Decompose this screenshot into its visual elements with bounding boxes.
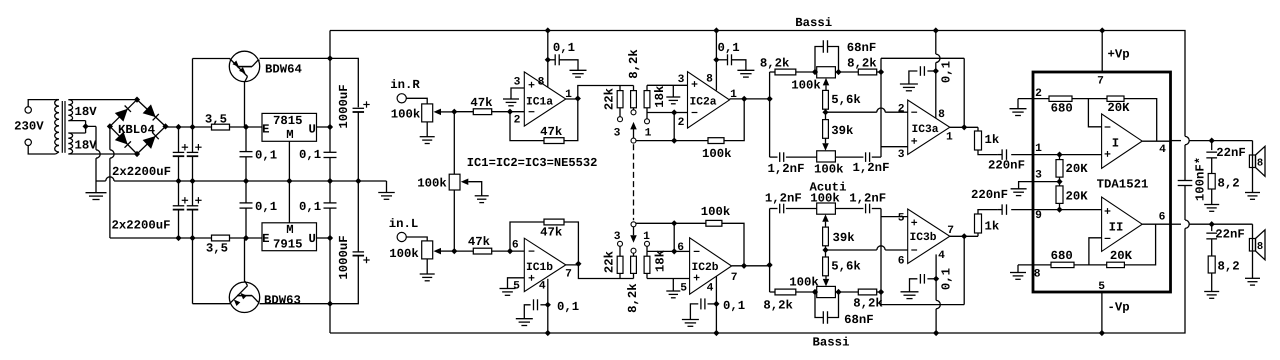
resistor 8,2k LP2 — [839, 71, 859, 73]
TDA pin2 wire — [1018, 98, 1049, 100]
wire IC2a feedback — [674, 140, 708, 142]
wire IC2a out — [730, 98, 770, 100]
resistor 8,2k LP1 — [770, 71, 775, 73]
svg-text:8,2: 8,2 — [1218, 259, 1240, 273]
ground in.R pot — [426, 122, 428, 137]
op-amp IC3b — [908, 209, 950, 264]
potentiometer 100k HP — [817, 286, 836, 297]
svg-text:5: 5 — [513, 281, 520, 293]
regulator 7915 box — [262, 223, 317, 251]
node 20K2 tap — [1056, 207, 1062, 213]
wire IC3a pin8 — [935, 31, 937, 55]
svg-text:1,2nF: 1,2nF — [765, 192, 802, 206]
svg-text:0,1: 0,1 — [553, 41, 575, 55]
resistor 8,2k HP2 — [839, 291, 859, 293]
svg-text:7915: 7915 — [273, 238, 303, 252]
wire 18k to ground and IC2a pin3 — [647, 85, 688, 112]
wire IC2b pin4 — [715, 276, 717, 333]
hop supply over tweeter out — [1185, 220, 1189, 228]
capacitor 0,1 IC1b supply — [540, 304, 547, 306]
svg-text:20K: 20K — [1066, 190, 1089, 204]
potentiometer 100k LP2 — [817, 151, 836, 162]
svg-text:4: 4 — [539, 281, 546, 293]
mains input terminal bottom — [25, 139, 31, 145]
wire secondary top — [68, 99, 137, 101]
resistor 8,2k HP1 — [770, 291, 775, 293]
svg-text:8: 8 — [938, 109, 945, 121]
wire IC1b out — [566, 264, 634, 279]
svg-text:0,1: 0,1 — [299, 200, 321, 214]
capacitor 220nF top — [1001, 149, 1003, 160]
op-amp IC2a — [688, 72, 730, 128]
ground TDA pin2 — [1017, 99, 1019, 109]
capacitor 0,1 IC3b supply — [927, 278, 936, 280]
TDA pin1 wire — [1033, 154, 1102, 156]
svg-text:7: 7 — [1097, 76, 1104, 88]
svg-text:2x2200uF: 2x2200uF — [111, 219, 170, 233]
svg-text:8: 8 — [1257, 241, 1263, 253]
capacitor 0,1 IC3a supply — [927, 70, 935, 72]
wire 680-20K junction — [1072, 98, 1107, 100]
svg-text:6: 6 — [677, 242, 684, 254]
svg-text:2: 2 — [514, 115, 521, 127]
node rail IC1b — [545, 330, 551, 336]
wiper 100k HP2 — [823, 279, 830, 287]
svg-text:7: 7 — [731, 272, 738, 284]
svg-text:E: E — [262, 123, 269, 137]
svg-text:8: 8 — [538, 76, 545, 88]
node HP mid — [825, 246, 827, 257]
svg-text:22k: 22k — [603, 87, 617, 110]
resistor 3,5 lower — [212, 235, 230, 241]
wire BDW63 right lead — [260, 303, 330, 305]
svg-text:22nF: 22nF — [1215, 227, 1245, 241]
speaker tweeter — [1252, 224, 1254, 278]
svg-text:100k: 100k — [417, 177, 447, 191]
svg-text:8,2k: 8,2k — [853, 296, 883, 310]
hop supply over woofer out — [1185, 136, 1189, 144]
svg-text:47k: 47k — [470, 96, 493, 110]
svg-text:22k: 22k — [603, 250, 617, 273]
svg-text:1,2nF: 1,2nF — [853, 161, 890, 175]
input terminal in.L — [397, 232, 406, 241]
resistor 20K vert 2 — [1056, 186, 1063, 204]
svg-text:1000uF: 1000uF — [337, 235, 351, 279]
node BDW64-1000uF tap — [327, 55, 333, 61]
svg-text:100k: 100k — [702, 147, 732, 161]
node center tap — [83, 123, 89, 129]
wire +raw rail — [166, 126, 212, 128]
bridge rectifier KBL04 diode bottom-left — [110, 126, 137, 154]
ground main PSU — [95, 181, 97, 193]
svg-text:IC1=IC2=IC3=NE5532: IC1=IC2=IC3=NE5532 — [467, 156, 598, 170]
op-amp II — [1102, 197, 1143, 251]
svg-text:7: 7 — [947, 225, 954, 237]
capacitor 1000uF upper — [330, 58, 358, 107]
TDA pin9 wire — [1033, 209, 1102, 211]
resistor 1k top — [977, 127, 979, 131]
svg-text:8,2k: 8,2k — [627, 49, 641, 79]
svg-text:0,1: 0,1 — [940, 61, 954, 83]
svg-text:6: 6 — [1159, 212, 1166, 224]
TDA pin3 wire — [1033, 181, 1060, 183]
svg-text:100k: 100k — [814, 163, 844, 177]
svg-text:100nF*: 100nF* — [1193, 157, 1207, 201]
node wiper L — [451, 248, 457, 254]
capacitor 0,1 7815 out — [329, 127, 331, 152]
node mid rail x330 — [327, 178, 333, 184]
svg-text:4: 4 — [938, 250, 945, 262]
node IC1b pin6 — [507, 248, 513, 254]
capacitor 220nF bottom — [1001, 204, 1003, 215]
wire op1 minus riser — [1088, 99, 1101, 127]
svg-text:2x2200uF: 2x2200uF — [112, 165, 171, 179]
node -rail E7915 — [243, 235, 249, 241]
wire 7815 M — [288, 141, 290, 181]
svg-text:220nF: 220nF — [988, 158, 1025, 172]
wire IC1a out — [566, 86, 634, 100]
node IC2b fb — [671, 220, 677, 226]
node bridge bottom — [134, 151, 140, 157]
node IC1b 0,1 tap — [545, 302, 551, 308]
svg-text:BDW64: BDW64 — [265, 63, 303, 77]
regulator 7815 box — [262, 113, 317, 141]
node +rail cap2 — [189, 124, 195, 130]
capacitor 22nF woofer — [1211, 141, 1213, 151]
svg-text:47k: 47k — [468, 235, 491, 249]
node filter R in — [767, 96, 773, 102]
svg-text:IC2a: IC2a — [689, 96, 716, 108]
node wiper R — [451, 109, 457, 115]
node -rail cap2 — [189, 235, 195, 241]
svg-text:5: 5 — [898, 213, 905, 225]
op-amp II signs — [1105, 210, 1111, 212]
capacitor 100nF supply — [1184, 145, 1186, 180]
svg-text:1: 1 — [643, 231, 650, 243]
node IC2a pin2 stub — [671, 109, 677, 115]
node IC1a pin2 — [507, 109, 513, 115]
wiper balance — [461, 178, 469, 185]
bridge rectifier KBL04 diode bottom-right — [137, 126, 166, 154]
op-amp IC1b — [524, 238, 566, 291]
svg-text:39k: 39k — [831, 124, 854, 138]
svg-text:18V: 18V — [75, 105, 98, 119]
ground tweeter zobel — [1211, 273, 1213, 292]
node tweeter zobel — [1209, 221, 1215, 227]
wire in.R to pot — [406, 98, 427, 104]
resistor 5,6k — [823, 90, 829, 109]
capacitor 2200uF B1 — [178, 181, 180, 206]
wire secondary bottom — [68, 153, 137, 155]
wire mains bottom — [28, 146, 55, 155]
terminal wiper top — [633, 108, 635, 110]
node rail IC2b — [713, 330, 719, 336]
op-amp I — [1102, 114, 1143, 168]
ground mid-rail right — [378, 192, 395, 194]
wire IC3b pin4 — [935, 254, 937, 300]
svg-text:0,1: 0,1 — [718, 41, 740, 55]
wire output tweeter — [1171, 223, 1182, 225]
svg-text:0,1: 0,1 — [255, 149, 277, 163]
node IC1a out — [575, 95, 581, 101]
svg-text:230V: 230V — [14, 119, 44, 133]
potentiometer 100k in.L — [422, 241, 433, 259]
node LP A — [812, 69, 818, 75]
svg-text:100k: 100k — [389, 247, 419, 261]
svg-text:0,1: 0,1 — [940, 268, 954, 290]
node HP C — [878, 289, 884, 295]
potentiometer 100k in.R — [422, 104, 433, 122]
svg-text:in.R: in.R — [390, 78, 420, 92]
wire IC1a pin8 — [547, 31, 549, 88]
svg-text:IC3b: IC3b — [909, 231, 936, 244]
transformer core — [61, 101, 63, 153]
svg-text:39k: 39k — [833, 231, 856, 245]
wire +15V top rail (Bassi) — [330, 31, 1185, 137]
resistor 8,2 tweeter — [1208, 256, 1215, 273]
transformer primary winding — [55, 100, 59, 107]
node bridge top — [134, 97, 140, 103]
wire BDW64 right lead — [260, 57, 330, 59]
svg-text:0,1: 0,1 — [255, 200, 277, 214]
svg-text:0,1: 0,1 — [557, 300, 579, 314]
resistor 3,5 upper — [212, 124, 230, 130]
wire op1 feedback — [1124, 99, 1157, 142]
svg-text:47k: 47k — [540, 125, 563, 139]
wiper 100k HP1 — [825, 222, 827, 227]
wire 18k to ground and IC2b pin5 — [647, 251, 690, 291]
wire filter left riser top — [769, 72, 771, 157]
resistor 47k in L — [454, 250, 473, 252]
svg-text:22nF: 22nF — [1216, 146, 1246, 160]
op-amp IC3a — [908, 100, 950, 155]
svg-text:IC2b: IC2b — [691, 261, 718, 274]
svg-text:7815: 7815 — [273, 114, 303, 128]
wire HP mid to IC3b pin6 — [826, 249, 877, 251]
svg-text:100k: 100k — [810, 192, 840, 206]
bridge rectifier KBL04 diode top-left — [110, 100, 137, 127]
svg-text:KBL04: KBL04 — [118, 123, 156, 137]
svg-text:8,2: 8,2 — [1218, 176, 1240, 190]
node -rail cap1 — [175, 235, 181, 241]
ground woofer — [1245, 192, 1260, 194]
transistor BDW64 — [229, 51, 259, 81]
svg-text:20K: 20K — [1107, 101, 1130, 115]
resistor 18k bottom — [646, 273, 648, 278]
ground TDA pin3 — [1019, 182, 1033, 189]
wire IC2b out — [732, 265, 770, 267]
capacitor 1,2nF LP right — [835, 156, 863, 158]
node HP A — [812, 289, 818, 295]
capacitor 22nF tweeter — [1211, 224, 1213, 231]
terminal 1 top — [646, 113, 648, 119]
svg-text:8,2k: 8,2k — [763, 298, 793, 312]
resistor 5,6k bottom — [823, 257, 829, 276]
node IC1b out — [575, 261, 581, 267]
capacitor 0,1 IC2a supply — [713, 57, 719, 63]
svg-text:68nF: 68nF — [844, 313, 874, 327]
wire 7915 M — [288, 181, 290, 223]
svg-text:3: 3 — [898, 149, 905, 161]
node rail IC2a — [713, 27, 719, 33]
svg-text:47k: 47k — [540, 225, 563, 239]
wiper in.R — [434, 109, 442, 116]
resistor 1k bottom — [977, 233, 979, 236]
node 7815 M 0V — [286, 178, 292, 184]
svg-text:680: 680 — [1051, 249, 1073, 263]
svg-text:Bassi: Bassi — [795, 16, 832, 30]
svg-text:U: U — [309, 123, 316, 137]
wire IC2a pin8 — [715, 31, 717, 91]
wire IC3a feedback — [881, 58, 964, 127]
wiper 100k LP2 — [825, 138, 827, 143]
svg-text:M: M — [286, 128, 293, 142]
wire IC1a feedback — [510, 112, 544, 141]
TDA pin5 stub — [1101, 292, 1103, 333]
svg-text:1: 1 — [645, 128, 652, 140]
resistor 20K bottom — [1107, 262, 1125, 267]
node HP B — [835, 289, 841, 295]
capacitor 0,1 7915 out — [329, 181, 331, 203]
node IC3b 0,1 tap — [933, 276, 939, 282]
wire bridge minus drop — [109, 126, 111, 149]
svg-text:2: 2 — [1035, 88, 1042, 100]
capacitor 2200uF B2 — [192, 181, 194, 206]
TDA pin4 out — [1142, 140, 1170, 142]
svg-text:1: 1 — [946, 132, 953, 144]
input terminal in.R — [397, 94, 406, 103]
op-amp I signs — [1105, 126, 1111, 128]
svg-text:2: 2 — [898, 103, 905, 115]
svg-text:0,1: 0,1 — [299, 148, 321, 162]
svg-text:M: M — [286, 223, 293, 237]
svg-text:IC1a: IC1a — [526, 96, 553, 108]
svg-text:6: 6 — [898, 256, 905, 268]
wire IC1a pin3 ground — [511, 88, 524, 99]
svg-text:100k: 100k — [789, 275, 819, 289]
resistor 39k bottom — [823, 227, 829, 246]
node LP B — [835, 69, 841, 75]
svg-text:3: 3 — [678, 74, 685, 86]
svg-text:TDA1521: TDA1521 — [1097, 178, 1149, 192]
wire BDW63 top lead — [244, 238, 246, 282]
wire -15V riser — [329, 238, 331, 333]
wire IC2b feedback — [674, 222, 706, 224]
terminal 1 bottom — [646, 246, 648, 251]
capacitor 2200uF A1 — [178, 127, 180, 152]
svg-text:3: 3 — [514, 76, 521, 88]
svg-text:8: 8 — [1034, 269, 1041, 281]
capacitor 1,2nF HP right — [835, 208, 863, 210]
ground woofer zobel — [1211, 189, 1213, 205]
resistor 22k top — [619, 86, 621, 91]
wire IC3b out — [950, 235, 978, 237]
svg-text:3: 3 — [614, 231, 621, 243]
svg-text:8,2k: 8,2k — [626, 283, 640, 313]
IC TDA1521 box — [1033, 72, 1171, 292]
node rail IC3a — [933, 27, 939, 33]
svg-text:+Vp: +Vp — [1108, 48, 1130, 62]
node rail IC1a — [545, 27, 551, 33]
node woofer zobel — [1209, 138, 1215, 144]
wire mid rail 0V — [96, 180, 106, 182]
node IC2a fb — [671, 138, 677, 144]
node IC2b out — [741, 263, 747, 269]
node LP mid — [825, 109, 827, 119]
wire wiper link — [453, 112, 455, 175]
mains input terminal top — [25, 107, 31, 113]
wire op2 minus riser — [1089, 238, 1102, 265]
svg-text:0,1: 0,1 — [723, 299, 745, 313]
wire -raw rail — [110, 237, 212, 239]
svg-text:5,6k: 5,6k — [831, 260, 861, 274]
svg-text:1,2nF: 1,2nF — [768, 162, 805, 176]
terminal 3 bottom — [619, 246, 621, 256]
capacitor 1,2nF HP left — [770, 208, 778, 210]
resistor 18k top — [646, 85, 648, 90]
svg-text:-Vp: -Vp — [1108, 301, 1130, 315]
svg-text:Bassi: Bassi — [813, 336, 850, 350]
ground tweeter — [1245, 277, 1260, 279]
wire 7915 U out — [317, 237, 331, 239]
transformer secondary winding 1 (18V) — [68, 100, 72, 105]
svg-text:IC3a: IC3a — [911, 124, 938, 136]
node rail IC3b — [933, 330, 939, 336]
node BDW63-1000uF tap — [327, 301, 333, 307]
svg-text:6: 6 — [512, 240, 519, 252]
node 20K mid tap — [1056, 179, 1062, 185]
wire IC3b pin5 riser — [880, 209, 882, 293]
svg-text:IC1b: IC1b — [526, 261, 553, 274]
TDA pin7 stub — [1101, 31, 1103, 73]
wire IC1b pin4 — [547, 279, 549, 333]
speaker woofer — [1252, 141, 1254, 193]
node mid rail cap1 — [175, 178, 181, 184]
wire -15V bottom rail (Bassi) — [330, 228, 1185, 333]
node +rail cap1 — [175, 124, 181, 130]
node IC3a out — [961, 124, 967, 130]
resistor 8,2k bottom-mid — [633, 273, 635, 278]
capacitor 1000uF lower — [330, 256, 358, 304]
node IC2b pin6 stub — [671, 248, 677, 254]
svg-text:18k: 18k — [654, 249, 668, 272]
svg-text:680: 680 — [1051, 102, 1073, 116]
wire center tap drop — [95, 126, 97, 149]
wire 680-20K junction bottom — [1074, 264, 1107, 266]
svg-text:3,5: 3,5 — [205, 112, 227, 126]
potentiometer 100k LP — [817, 67, 836, 78]
wire IC2a pin2 riser — [673, 113, 675, 141]
node mid rail 1000uF — [355, 178, 361, 184]
capacitor 68nF top — [815, 47, 823, 73]
wire center tap — [68, 121, 96, 133]
bridge rectifier KBL04 diode top-right — [137, 100, 166, 127]
wiper in.L — [434, 248, 442, 255]
op-amp IC2b — [690, 238, 732, 294]
wire mains top — [28, 100, 55, 107]
wire IC3a pin3 riser — [880, 72, 882, 157]
wire wiper to IC2b — [636, 222, 674, 224]
node LP C — [878, 69, 884, 75]
node bridge left — [107, 123, 113, 129]
capacitor 68nF bottom — [815, 292, 823, 318]
resistor 680 bottom — [1051, 262, 1074, 267]
node mid rail cap2 — [189, 178, 195, 184]
wiper 100k LP — [823, 78, 830, 86]
svg-text:1k: 1k — [985, 133, 1000, 147]
svg-text:1,2nF: 1,2nF — [849, 192, 886, 206]
wire filter left riser bottom — [769, 209, 771, 293]
